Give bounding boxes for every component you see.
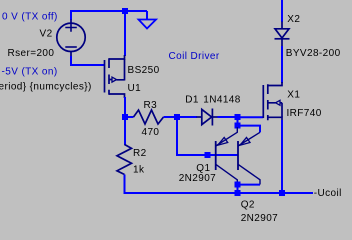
pmos U1 source stub: [109, 55, 125, 59]
svg-text:U1: U1: [128, 83, 142, 94]
transistor Q2 base bar: [237, 141, 239, 170]
wire node (237.5,117) to X1 gate: [238, 116, 264, 118]
svg-text:1k: 1k: [133, 164, 145, 175]
node junction at (282,193): [279, 190, 285, 196]
wire V2 bottom to U1 gate: [71, 56, 105, 65]
diode D1 anode lead: [197, 116, 202, 118]
wire R3 right to node: [164, 116, 178, 118]
voltage source V2 top lead: [70, 20, 72, 24]
diode D1 cathode lead: [212, 116, 218, 118]
svg-text:-5V (TX on): -5V (TX on): [2, 66, 58, 77]
svg-text:V2: V2: [40, 28, 53, 39]
V2 plus sign: [65, 24, 77, 32]
node junction at (237.5,117): [235, 114, 241, 120]
diode D1 triangle: [202, 109, 212, 124]
node junction at (237.5,184.5): [235, 182, 241, 188]
wire R2 bottom to bottom rail: [125, 175, 314, 194]
V2 minus sign: [65, 46, 77, 48]
transistor Q1 base bar: [215, 141, 217, 170]
svg-text:R2: R2: [133, 148, 147, 159]
diode X2 cathode bar: [275, 38, 290, 40]
nmos X1 gate bar: [262, 85, 264, 118]
svg-text:IRF740: IRF740: [287, 108, 322, 119]
node junction at (177,117): [174, 114, 180, 120]
diode X2 cathode lead: [281, 39, 283, 47]
diode D1 cathode bar: [211, 109, 213, 126]
voltage source V2 circle: [57, 23, 85, 51]
wire node down to emitter node: [237, 117, 239, 126]
wire U1 drain down to node: [124, 97, 126, 117]
node junction at (125,117): [122, 114, 128, 120]
svg-text:2N2907: 2N2907: [179, 173, 216, 184]
nmos X1 bulk arrow head pointing left: [276, 100, 281, 105]
node junction at (237.5,125.5): [235, 123, 241, 129]
diode X2 triangle: [275, 29, 289, 38]
wire X1 source down to rail: [281, 120, 283, 193]
nmos X1 drain stub: [268, 82, 282, 86]
pmos U1 gate bar: [104, 60, 106, 93]
transistor Q1 collector lead: [216, 164, 238, 182]
wire D1 cathode to node (237.5,117): [218, 116, 238, 118]
svg-text:470: 470: [142, 127, 160, 138]
svg-text:R3: R3: [144, 100, 158, 111]
svg-text:X1: X1: [287, 90, 300, 101]
wire X2 cathode down to X1 drain: [281, 46, 283, 83]
svg-text:2N2907: 2N2907: [241, 213, 278, 224]
ground symbol stem: [146, 11, 148, 20]
wire emitter node to Q2 emitter: [238, 126, 261, 133]
svg-text:X2: X2: [287, 14, 300, 25]
nmos X1 channel segments: [267, 84, 269, 120]
voltage source V2 bottom lead: [70, 51, 72, 57]
nmos X1 bulk stub and outer bar: [268, 103, 282, 118]
wire node (177,117) to D1 anode: [177, 116, 197, 118]
transistor Q1 emitter arrow: [218, 138, 228, 146]
transistor Q2 collector lead: [238, 164, 260, 184]
transistor Q2 emitter arrow: [240, 138, 250, 146]
svg-text:Q2: Q2: [241, 200, 255, 211]
svg-text:Rser=200: Rser=200: [8, 48, 55, 59]
wire from top junction down to U1 source: [124, 11, 126, 56]
pmos U1 bulk arrow head pointing right: [112, 77, 117, 82]
nmos X1 source stub: [268, 117, 282, 121]
wire node down to R2: [124, 120, 126, 145]
wire collector node down to rail: [237, 185, 239, 194]
resistor R2 zigzag: [117, 145, 132, 175]
node junction at top rail (125,11): [122, 8, 128, 14]
wire X2 from top edge: [281, 0, 283, 22]
svg-text:-Ucoil: -Ucoil: [314, 188, 342, 199]
wire top rail from V2 to junction and ground: [71, 11, 147, 20]
svg-text:D1: D1: [185, 94, 199, 105]
node junction at (237.5,193): [235, 190, 241, 196]
wire from node (177,117) down and right to Q1 base: [177, 117, 238, 155]
svg-text:BS250: BS250: [128, 65, 160, 76]
wire collector node to Q2 collector: [238, 184, 261, 186]
pmos U1 channel segments: [108, 58, 110, 95]
pmos U1 drain stub: [109, 94, 125, 98]
svg-text:0 V (TX off): 0 V (TX off): [2, 11, 58, 22]
resistor R3 zigzag: [134, 110, 164, 124]
ground symbol triangle: [139, 20, 157, 29]
svg-text:eriod} {numcycles}): eriod} {numcycles}): [0, 82, 92, 93]
svg-text:1N4148: 1N4148: [203, 94, 240, 105]
wire node to R3 left: [125, 116, 134, 118]
transistor Q2 emitter lead: [238, 132, 260, 146]
transistor Q1 emitter lead: [216, 127, 238, 146]
pmos U1 bulk stub and outer bar: [109, 59, 125, 81]
svg-text:BYV28-200: BYV28-200: [286, 48, 341, 59]
node junction at (207.5,155): [205, 152, 211, 158]
svg-text:Coil Driver: Coil Driver: [169, 51, 220, 62]
diode X2 anode lead: [281, 22, 283, 29]
